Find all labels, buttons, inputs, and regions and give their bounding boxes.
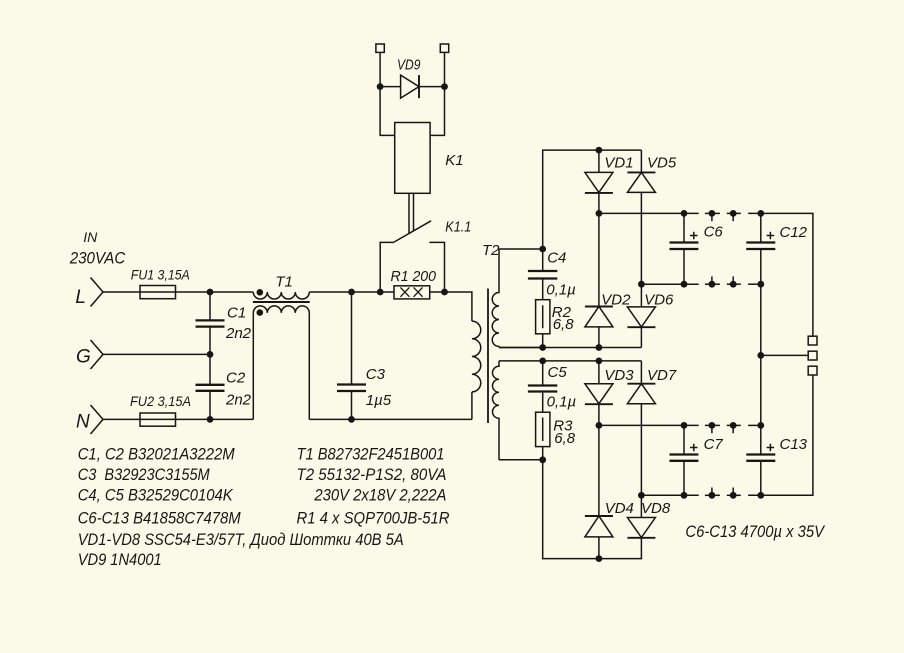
node junction C4 top xyxy=(539,246,546,253)
wire T2 sec2 bottom lead xyxy=(499,459,543,461)
node junction C3 top xyxy=(348,289,355,296)
capacitor C4 xyxy=(528,249,557,300)
svg-text:VD4: VD4 xyxy=(605,500,634,517)
wire T2 sec2 top lead xyxy=(499,360,543,362)
wire DC+ rail ch1 xyxy=(599,213,813,336)
wire R1 to T2 elbow xyxy=(430,292,472,321)
svg-text:FU2 3,15A: FU2 3,15A xyxy=(130,393,191,409)
node N input arrow xyxy=(91,405,104,434)
node junction G/C1/C2 xyxy=(207,351,214,358)
transformer T1 bottom winding xyxy=(253,306,309,316)
node stub C8 bottom xyxy=(709,276,716,287)
svg-text:C3 B32923C3155M: C3 B32923C3155M xyxy=(78,465,210,484)
svg-text:N: N xyxy=(76,412,90,433)
node junction R3 bottom xyxy=(539,456,546,463)
transformer T1 top winding xyxy=(253,289,309,299)
node junction C3 bottom xyxy=(348,416,355,423)
wire T1 bottom right lead xyxy=(308,313,310,420)
svg-text:C12: C12 xyxy=(780,224,808,241)
svg-text:VD2: VD2 xyxy=(601,291,631,308)
resistor R1 xyxy=(394,286,430,299)
diode VD6 xyxy=(627,307,655,348)
relay K1 linkage xyxy=(409,193,414,233)
node junction VD1/VD2 DC+ xyxy=(596,210,603,217)
svg-text:6,8: 6,8 xyxy=(553,316,575,333)
diode VD4 xyxy=(585,516,613,559)
wire L to T1 xyxy=(176,291,254,293)
node L input arrow xyxy=(91,278,104,307)
svg-text:T1 B82732F2451B001: T1 B82732F2451B001 xyxy=(297,445,445,464)
node junction VD9 left xyxy=(377,83,384,90)
capacitor C3 xyxy=(337,292,366,419)
node junction center tap xyxy=(757,352,764,359)
diode VD5 xyxy=(627,150,655,307)
svg-text:VD8: VD8 xyxy=(641,500,671,517)
svg-text:VD9: VD9 xyxy=(397,57,421,74)
svg-text:C6-C13 B41858C7478M: C6-C13 B41858C7478M xyxy=(78,508,241,527)
svg-text:FU1 3,15A: FU1 3,15A xyxy=(131,267,190,283)
wire bridge1 AC2 rail xyxy=(499,347,641,349)
svg-text:0,1µ: 0,1µ xyxy=(546,282,576,299)
svg-text:0,1µ: 0,1µ xyxy=(547,394,577,411)
node junction C1 top xyxy=(207,289,214,296)
node junction VD5/VD6 DC- xyxy=(638,281,645,288)
node stub C10 top xyxy=(709,422,716,433)
diode VD3 xyxy=(585,361,613,516)
diode VD2 xyxy=(585,307,613,348)
diode VD9 xyxy=(380,75,444,98)
svg-text:C7: C7 xyxy=(704,436,724,453)
fuse FU2 xyxy=(140,413,176,426)
wire bottom square to DC- ch2 xyxy=(761,375,813,495)
svg-text:C1, C2 B32021A3222M: C1, C2 B32021A3222M xyxy=(78,445,235,464)
svg-text:C6-C13 4700µ x 35V: C6-C13 4700µ x 35V xyxy=(685,522,825,541)
node G input arrow xyxy=(91,340,104,369)
svg-text:VD1: VD1 xyxy=(604,155,633,172)
connector square relay left xyxy=(376,44,384,52)
wire G line xyxy=(103,353,210,355)
capacitor C13 xyxy=(746,425,775,495)
connector square output minus xyxy=(808,366,817,375)
diode VD1 xyxy=(585,150,613,306)
svg-text:C2: C2 xyxy=(226,369,246,386)
svg-text:VD7: VD7 xyxy=(647,367,677,384)
wire DC- rail ch1 xyxy=(641,283,760,285)
svg-text:K1.1: K1.1 xyxy=(445,219,471,236)
svg-text:L: L xyxy=(75,287,86,308)
wire T2 sec1 bottom lead xyxy=(499,347,543,349)
node junction C6 bottom xyxy=(681,281,688,288)
svg-text:VD3: VD3 xyxy=(604,367,634,384)
svg-text:230VAC: 230VAC xyxy=(69,249,126,268)
svg-text:R1 4 x SQP700JB-51R: R1 4 x SQP700JB-51R xyxy=(297,508,450,527)
resistor R2 xyxy=(536,300,550,334)
svg-text:C5: C5 xyxy=(548,364,568,381)
wire R3 bottom to bridge2 AC2 xyxy=(543,460,643,559)
svg-text:T2 55132-P1S2, 80VA: T2 55132-P1S2, 80VA xyxy=(297,465,447,484)
wire N rail under T1 to T2 xyxy=(309,418,472,420)
node junction C12 top xyxy=(757,210,764,217)
transformer T2 secondary 2 xyxy=(493,361,499,460)
node junction C7 top xyxy=(681,422,688,429)
svg-text:2n2: 2n2 xyxy=(225,391,252,408)
node junction C13 top xyxy=(757,422,764,429)
diode VD8 xyxy=(627,518,655,559)
node junction C5 top xyxy=(539,358,546,365)
node junction R1 right xyxy=(441,289,448,296)
svg-text:1µ5: 1µ5 xyxy=(366,392,392,409)
capacitor C2 xyxy=(196,354,225,419)
wire T2 sec1 top lead xyxy=(499,248,543,250)
svg-text:IN: IN xyxy=(83,229,98,245)
transformer T2 core xyxy=(487,289,489,424)
node junction C13 bottom xyxy=(757,492,764,499)
capacitor C12 xyxy=(746,213,775,284)
fuse FU1 xyxy=(140,286,176,299)
node junction C6 top xyxy=(681,210,688,217)
connector square output plus xyxy=(808,336,817,345)
wire T2 primary bottom lead xyxy=(471,392,473,420)
capacitor C5 xyxy=(528,361,557,412)
svg-text:C3: C3 xyxy=(366,366,386,383)
wire N to T1 bottom lead xyxy=(176,418,254,420)
node junction bridge1 AC1 xyxy=(596,147,603,154)
wire L line xyxy=(103,291,140,293)
node stub C9 bottom xyxy=(730,276,737,287)
svg-text:VD6: VD6 xyxy=(644,291,674,308)
wire C4 riser to bridge1 xyxy=(543,150,642,249)
wire DC+ rail ch2 xyxy=(599,424,761,426)
svg-text:T1: T1 xyxy=(275,274,293,291)
wire T1 to R1 xyxy=(309,291,394,293)
transformer T2 secondary 1 xyxy=(492,249,499,348)
connector square output mid xyxy=(808,351,817,360)
wire center column C12 to C13 xyxy=(760,284,762,425)
capacitor C6 xyxy=(670,213,699,284)
node stub C11 top xyxy=(730,422,737,433)
transformer T1 core xyxy=(253,301,310,303)
svg-text:2n2: 2n2 xyxy=(225,325,252,342)
node junction VD7/VD8 DC- xyxy=(638,492,645,499)
node junction R2 bottom xyxy=(539,344,546,351)
svg-text:C4: C4 xyxy=(547,250,566,267)
relay coil K1 xyxy=(395,123,430,194)
svg-text:VD5: VD5 xyxy=(647,155,677,172)
svg-text:C1: C1 xyxy=(227,305,246,322)
wire DC- rail ch2 xyxy=(641,494,813,496)
svg-text:R1 200: R1 200 xyxy=(391,268,437,285)
node junction R1 left xyxy=(377,289,384,296)
svg-text:C4, C5 B32529C0104K: C4, C5 B32529C0104K xyxy=(78,486,234,505)
svg-text:T2: T2 xyxy=(482,242,500,259)
svg-text:6,8: 6,8 xyxy=(554,430,576,447)
wire T1 bottom left lead xyxy=(252,313,254,420)
switch K1.1 xyxy=(380,221,444,292)
svg-text:VD1-VD8 SSC54-E3/57T, Диод Шот: VD1-VD8 SSC54-E3/57T, Диод Шоттки 40В 5А xyxy=(78,530,404,549)
wire bridge2 AC1 rail xyxy=(543,360,642,362)
wire R2 bottom xyxy=(542,334,544,348)
wire R3 bottom xyxy=(542,447,544,460)
svg-text:G: G xyxy=(76,347,91,368)
diode VD7 xyxy=(627,361,655,518)
svg-text:VD9 1N4001: VD9 1N4001 xyxy=(78,550,162,569)
wire relay right vertical xyxy=(430,52,444,135)
svg-text:C13: C13 xyxy=(780,436,808,453)
resistor R3 xyxy=(536,412,550,446)
svg-text:230V 2x18V 2,222A: 230V 2x18V 2,222A xyxy=(314,486,447,505)
capacitor C1 xyxy=(196,292,225,354)
node junction C12 bottom xyxy=(757,281,764,288)
svg-text:C6: C6 xyxy=(704,224,724,241)
node stub C10 bottom xyxy=(709,488,716,499)
svg-text:K1: K1 xyxy=(445,152,463,169)
node stub C11 bottom xyxy=(730,488,737,499)
node junction VD9 right xyxy=(441,83,448,90)
connector square relay right xyxy=(440,44,448,52)
node junction VD3/VD4 DC+ xyxy=(596,422,603,429)
transformer T2 primary winding xyxy=(472,321,481,392)
wire center tap to middle square xyxy=(761,354,808,356)
node junction VD4 bottom xyxy=(596,555,603,562)
node junction bridge2 AC1 xyxy=(596,358,603,365)
node junction C2 bottom xyxy=(207,416,214,423)
node stub C8 top xyxy=(709,210,716,221)
wire N line xyxy=(103,418,140,420)
node junction C7 bottom xyxy=(681,492,688,499)
node junction VD2 bottom xyxy=(596,344,603,351)
wire relay left vertical xyxy=(380,52,395,135)
node stub C9 top xyxy=(730,210,737,221)
capacitor C7 xyxy=(670,425,699,495)
